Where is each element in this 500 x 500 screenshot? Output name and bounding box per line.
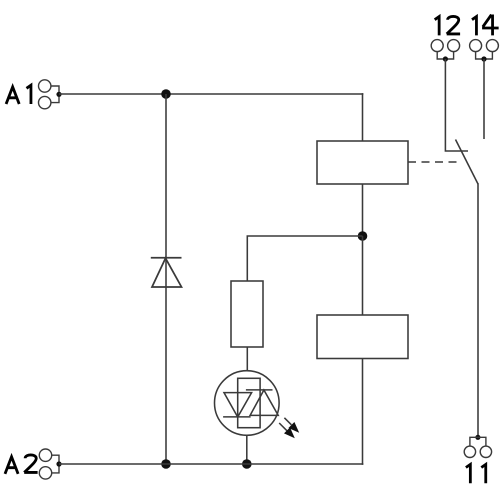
node at 12 bracket xyxy=(443,56,448,61)
terminal A2 bracket xyxy=(52,455,59,473)
relay coil K1 xyxy=(317,141,408,184)
LED internal resistor rect xyxy=(238,378,260,427)
terminal A1 clamp circles xyxy=(39,80,51,109)
terminal A1 label xyxy=(6,85,31,104)
node at A1 bracket xyxy=(56,92,61,97)
terminal 11 clamp circles xyxy=(464,446,491,457)
LED emission arrow 1 xyxy=(284,418,299,433)
terminal A1 bracket xyxy=(51,86,59,103)
freewheeling diode V1 xyxy=(151,258,182,287)
terminal 14 clamp circles xyxy=(470,40,499,52)
terminal 12 clamp circles xyxy=(431,40,459,52)
LED internal diode up xyxy=(246,390,278,416)
resistor R1 xyxy=(231,281,263,347)
wire resistor to LED xyxy=(246,347,248,371)
node junction coil/LED branch xyxy=(358,231,368,241)
wire junction to block xyxy=(362,236,364,315)
freewheeling diode V1 vertical wire xyxy=(165,94,167,464)
LED internal diode down xyxy=(223,393,252,417)
terminal A2 clamp circles xyxy=(39,449,51,479)
node junction A1/diode branch xyxy=(161,89,171,99)
LED indicator circle xyxy=(215,371,280,436)
terminal A2 label xyxy=(5,455,38,474)
mechanical linkage dashed line xyxy=(408,161,457,163)
terminal 11 bracket xyxy=(470,437,486,446)
wire branch to resistor xyxy=(247,236,362,281)
wire LED to bottom rail xyxy=(246,435,248,464)
changeover contact arm xyxy=(456,140,479,185)
wire block to bottom rail xyxy=(362,359,364,465)
node junction diode/bottom rail xyxy=(161,459,171,469)
wire down to relay coil xyxy=(362,93,364,141)
terminal 14 bracket xyxy=(476,52,493,59)
terminal 14 label xyxy=(472,14,499,35)
wire 12 to NC contact xyxy=(445,59,468,151)
node at 14 bracket xyxy=(481,56,486,61)
node at 11 bracket xyxy=(475,435,480,440)
node junction LED/bottom rail xyxy=(242,459,252,469)
terminal 12 bracket xyxy=(437,52,453,59)
LED emission arrow 2 xyxy=(279,423,295,438)
bottom rail wire A2 to block xyxy=(59,463,363,465)
node at A2 bracket xyxy=(56,461,61,466)
terminal 11 label xyxy=(466,464,486,483)
terminal 12 label xyxy=(435,16,460,35)
wire 14 to NO contact xyxy=(483,59,485,139)
wire contact arm to terminal 11 xyxy=(477,183,479,437)
block module U1 xyxy=(317,315,408,359)
wire coil bottom to junction xyxy=(362,184,364,236)
wire A1 horizontal to coil branch xyxy=(59,93,363,95)
